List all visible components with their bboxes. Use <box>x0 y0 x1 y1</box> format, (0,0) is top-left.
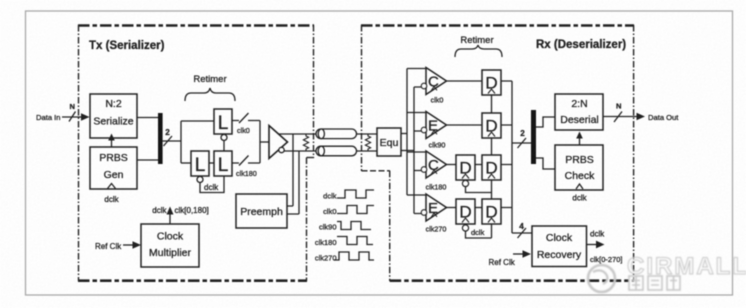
wire mux join vertical <box>259 121 261 164</box>
clock caret pin on PRBS Check <box>576 184 583 189</box>
wire PRBS Check to Deserial (arrow) <box>579 138 581 145</box>
block U8 Clock Multiplier <box>141 224 199 267</box>
bus slash N <box>614 112 622 123</box>
wire stubs to sampler clk bubbles <box>414 87 421 214</box>
block U5 2:N Deserial <box>555 94 603 130</box>
wire Equ output n <box>401 150 414 152</box>
waveform dclk <box>337 190 374 198</box>
sampler A4 E (clk270) <box>421 194 446 234</box>
wire Equ output p <box>401 133 407 135</box>
wire driver inverted output (bottom line) <box>284 150 317 152</box>
driver amplifier (Tx output buffer) <box>269 126 288 159</box>
wire FF4a bubble to dclk chain <box>466 231 492 238</box>
wire Clock Multiplier output (arrow up) <box>169 213 171 224</box>
switch clk0 <box>232 113 260 123</box>
bus slash 4 <box>518 228 527 238</box>
wire retimer output bus vertical <box>511 81 513 233</box>
wire retimer output stubs <box>501 81 512 208</box>
wire driver input <box>260 141 269 143</box>
wire preemph tap 1 <box>287 134 293 206</box>
block U3 Preemph <box>236 194 287 228</box>
wire to latch L1 (bottom) <box>181 162 191 164</box>
inverted clock bubble of L1 <box>197 177 203 183</box>
latch L3 (top path) <box>214 109 232 134</box>
switch clk180 <box>232 156 260 166</box>
Tx Retimer brace <box>185 88 235 101</box>
Tx (Serializer) dashed box <box>78 25 314 281</box>
block U7 Clock Recovery <box>532 226 587 267</box>
sampler A2 E (clk90) <box>421 112 446 150</box>
wire dclk loop L1 to L2 <box>200 176 224 193</box>
inverted clock bubble FF3a <box>462 180 468 186</box>
waveform clk0 <box>337 206 374 214</box>
flip-flop FF3a (row3 first) D <box>456 155 475 180</box>
wire serializer output <box>137 117 158 119</box>
wire preemph tap 2 <box>287 151 299 214</box>
wire input bus vertical n <box>413 87 415 214</box>
waveform clk270 <box>334 252 374 260</box>
Rx (Deserializer) dashed box <box>361 25 634 281</box>
wire bar to Deserial <box>536 117 555 127</box>
latch L1 (bottom path first) <box>191 151 209 176</box>
wire Deserial to Data Out <box>603 116 638 118</box>
resistor R1 (near-end termination) <box>303 134 308 151</box>
transmission line T2 (bottom) <box>316 146 357 156</box>
wire driver true output (top line) <box>278 133 316 135</box>
wire L1 to L2 <box>209 162 214 164</box>
inverted clock bubble of L3 <box>221 135 227 141</box>
flip-flop FF3b (row3 second) D <box>482 155 501 180</box>
wire FF3a to FF3b <box>475 164 482 166</box>
wire dclk chain vertical <box>491 95 493 238</box>
wire to latch L3 (top) <box>181 120 214 122</box>
wire L3 bubble down to L2 top <box>223 141 225 152</box>
wire sampler A1 to FF1 <box>446 80 482 82</box>
wire PRBS Gen to Serialize (arrow) <box>111 140 113 147</box>
resistor R2 (far-end termination) <box>365 134 370 151</box>
wire FF3a bubble to dclk chain <box>466 187 492 193</box>
inverted output bubble of driver <box>279 147 284 152</box>
block U6 PRBS Check <box>555 145 603 190</box>
bus slash <box>164 136 173 146</box>
flip-flop FF4b (row4 second) D <box>482 199 501 224</box>
decorative watermark (site logo) <box>588 253 746 292</box>
sampler A1 C (clk0) <box>421 68 446 105</box>
waveform clk90 <box>337 222 371 230</box>
bus width slash N <box>69 112 76 122</box>
wire bar to PRBS Check <box>536 158 555 169</box>
sampler A3 C (clk180) <box>421 151 446 192</box>
bus slash 2 <box>518 138 527 148</box>
flip-flop FF1 (row1) D <box>482 70 501 95</box>
flip-flop FF2 (row2) D <box>482 113 501 138</box>
wire Ref Clk into Clock Recovery <box>513 253 524 255</box>
flip-flop FF4a (row4 first) D <box>456 199 475 224</box>
wire sampler A2 to FF2 <box>446 124 482 126</box>
wire Data In to serializer <box>62 116 84 118</box>
wire input bus vertical p <box>406 69 408 196</box>
wire sampler A4 to FF4a <box>446 207 456 209</box>
transmission line T1 (top) <box>316 129 357 139</box>
block U2 PRBS Gen <box>90 147 137 189</box>
latch L2 (bottom path second) <box>214 151 232 176</box>
wire retimer split vertical <box>180 121 182 163</box>
wire bar to retimer split <box>163 140 181 142</box>
node mux bar Tx <box>158 113 163 164</box>
wire stubs to sampler inputs <box>407 69 426 196</box>
wire PRBS output <box>137 159 158 161</box>
wire bus to Rx mux bar <box>512 142 531 144</box>
block U4 Equ <box>377 128 401 156</box>
wire T-line to Equ (bottom) <box>357 150 378 152</box>
inverted clock bubble FF4a <box>462 225 468 231</box>
wire bus to Clock Recovery <box>512 232 532 234</box>
node mux bar Rx <box>531 110 536 164</box>
waveform clk180 <box>337 237 373 245</box>
wire sampler A3 to FF3a <box>446 164 456 166</box>
block U1 N:2 Serialize <box>90 94 137 138</box>
wire FF4a to FF4b <box>475 207 482 209</box>
wire Ref Clk into Clock Multiplier <box>123 244 134 246</box>
Rx Retimer brace <box>455 45 502 57</box>
clock caret pin on PRBS Gen <box>108 184 116 189</box>
wire T-line to Equ (top) <box>357 133 378 135</box>
